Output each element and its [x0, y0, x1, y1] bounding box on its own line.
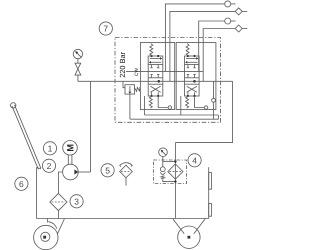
- svg-text:2: 2: [47, 161, 52, 171]
- coupling QC2: [235, 8, 242, 15]
- wire coupling line B1: [170, 11, 235, 81]
- cart handle bar: [15, 105, 41, 169]
- label circle 1: [43, 142, 56, 155]
- label circle 7: [99, 22, 112, 35]
- return filter F2: [168, 164, 183, 179]
- caster wheel left: [34, 219, 65, 250]
- shaft coupling: [67, 155, 69, 165]
- svg-text:5: 5: [105, 165, 110, 175]
- wire coupling line A1: [165, 4, 224, 72]
- pressure gauge G1: [73, 49, 82, 58]
- wire coupling line B2: [203, 29, 235, 82]
- return filter assembly item4 dashed box: [154, 160, 187, 184]
- wire filter to tank: [57, 211, 59, 219]
- svg-text:CW: CW: [134, 68, 140, 76]
- wire gauge stem: [77, 59, 79, 64]
- mounting bracket lower: [209, 204, 212, 217]
- label circle 5: [101, 164, 114, 177]
- hydraulic pump P1: [63, 164, 79, 180]
- cart tank right edge: [208, 167, 210, 218]
- valve section box 1: [140, 43, 174, 110]
- wire gauge stem to check valve: [162, 156, 164, 166]
- label circle 3: [70, 195, 83, 208]
- check valve CV1: [160, 167, 175, 182]
- label circle 6: [15, 177, 28, 190]
- wire main pressure line P: [78, 80, 233, 82]
- coupling QC1: [225, 1, 231, 7]
- label circle 2: [42, 159, 55, 172]
- electric motor M1: [63, 141, 78, 156]
- wire pump riser: [90, 81, 92, 172]
- mounting bracket upper: [209, 173, 212, 190]
- coupling QC3: [225, 18, 231, 24]
- wire coupling line A2: [199, 21, 225, 71]
- directional valve DV1: [148, 44, 171, 110]
- cart tank left edge: [36, 167, 38, 218]
- wire valve to main line: [77, 75, 79, 81]
- port circle M: [212, 98, 216, 102]
- label circle 4: [188, 154, 201, 167]
- svg-text:3: 3: [74, 196, 79, 206]
- wire valve2 T drop: [180, 96, 182, 115]
- wire pump outlet: [78, 171, 90, 173]
- wire valve1 T drop: [144, 96, 146, 115]
- breather filler B1: [120, 163, 133, 186]
- svg-text:7: 7: [103, 24, 108, 34]
- suction filter F1: [50, 193, 67, 210]
- svg-text:220 Bar: 220 Bar: [118, 51, 127, 77]
- cart tank bottom: [37, 218, 209, 220]
- wire T gallery lower: [130, 118, 218, 120]
- valve block dashed enclosure: [115, 38, 221, 123]
- caster wheel right: [173, 219, 206, 249]
- wire relief T drop: [129, 94, 131, 119]
- svg-text:4: 4: [192, 155, 197, 165]
- wire T drop x213.5: [213, 81, 215, 119]
- wire T gallery stub: [217, 115, 219, 119]
- node bypass rejoin: [174, 180, 176, 182]
- relief valve RV: [123, 81, 140, 94]
- svg-text:1: 1: [48, 143, 53, 153]
- pressure gauge G2: [159, 148, 168, 157]
- wire gallery A: [126, 70, 203, 72]
- wire return downpipe right: [175, 81, 232, 142]
- node bypass tee: [174, 160, 176, 162]
- wire bypass branch: [163, 161, 176, 163]
- valve section box 2: [176, 43, 216, 110]
- wire return to filter: [174, 143, 176, 219]
- svg-text:6: 6: [19, 179, 24, 189]
- directional valve DV2: [185, 44, 208, 110]
- coupling QC4: [235, 25, 242, 32]
- wire T gallery upper: [145, 114, 219, 116]
- shutoff valve V1 (hourglass): [75, 63, 81, 75]
- svg-text:M: M: [65, 144, 75, 152]
- wire pump suction: [58, 172, 62, 193]
- cart handle grip: [11, 103, 16, 108]
